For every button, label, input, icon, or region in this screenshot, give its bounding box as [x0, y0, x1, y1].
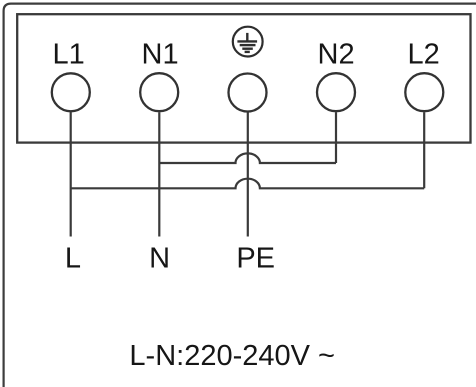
terminal N1 — [140, 73, 178, 111]
svg-text:L1: L1 — [52, 39, 84, 71]
wire L2 down — [423, 112, 425, 188]
protective earth symbol — [233, 27, 263, 57]
wire PE down — [247, 112, 249, 236]
wire N1-N2 link with hop over PE — [159, 153, 336, 163]
svg-text:N: N — [149, 243, 170, 275]
terminal L2 — [405, 73, 443, 111]
terminal block outline — [17, 14, 470, 142]
svg-text:L: L — [65, 243, 81, 275]
svg-text:L2: L2 — [407, 39, 439, 71]
svg-text:N1: N1 — [142, 39, 179, 71]
terminal PE — [229, 74, 267, 112]
wire N2 down — [335, 112, 337, 163]
wire N1 down — [158, 112, 160, 236]
svg-text:PE: PE — [236, 243, 275, 275]
terminal N2 — [317, 73, 355, 111]
svg-text:L-N:220-240V ~: L-N:220-240V ~ — [129, 340, 335, 372]
svg-text:N2: N2 — [318, 39, 355, 71]
terminal L1 — [52, 73, 90, 111]
wire L1-L2 link with hop over PE — [71, 179, 425, 189]
wire L1 down — [70, 112, 72, 236]
